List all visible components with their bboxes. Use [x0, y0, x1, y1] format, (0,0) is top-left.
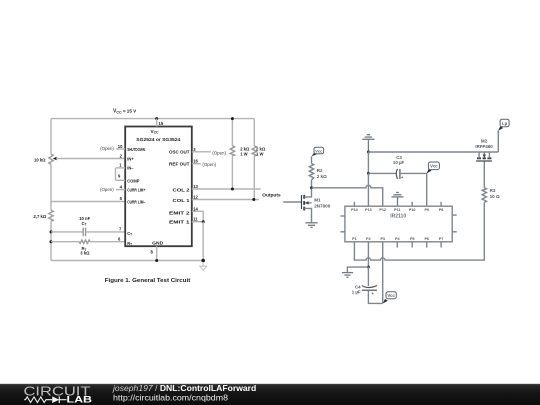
BOTTOM BAR	[0, 383, 540, 405]
wire pin6 right	[90, 241, 125, 243]
svg-text:Lp: Lp	[502, 121, 508, 126]
svg-text:10 kΩ: 10 kΩ	[34, 158, 46, 163]
svg-text:joseph197 / DNL:ControlLAForwa: joseph197 / DNL:ControlLAForward	[112, 383, 256, 393]
svg-text:P7: P7	[439, 237, 444, 241]
wire pin11	[192, 221, 203, 223]
wire pin5	[51, 201, 125, 203]
svg-text:R2: R2	[317, 168, 323, 173]
svg-text:(Open): (Open)	[202, 162, 216, 167]
op-amp U2 IR2110 box	[345, 206, 452, 242]
ground lower left	[342, 273, 353, 278]
junction 2k first top	[231, 117, 234, 120]
ground M1 source	[305, 223, 317, 228]
pin P5 stub	[411, 242, 413, 248]
potentiometer wiper arrow	[53, 157, 57, 161]
wire gnd node to M2 drain	[368, 151, 498, 153]
resistor R3 lead up	[483, 161, 485, 188]
pin P7 stub	[440, 242, 442, 248]
junction P2 gnd node	[367, 266, 370, 269]
pin 4 stub	[116, 189, 125, 191]
resistor R3 body	[482, 188, 486, 203]
wire left rail lower	[50, 221, 52, 260]
svg-text:10 µF: 10 µF	[393, 160, 405, 165]
wire to lower ground	[347, 267, 368, 273]
resistor 2k second body	[252, 146, 256, 156]
capacitor C3	[396, 169, 404, 180]
svg-text:(Open): (Open)	[100, 146, 114, 151]
wire P3 down	[382, 242, 384, 304]
svg-text:REF OUT: REF OUT	[169, 162, 190, 167]
svg-text:P13: P13	[365, 208, 372, 212]
svg-text:GND: GND	[152, 241, 163, 246]
pin side stub right1	[452, 214, 457, 216]
pin 10 stub	[116, 148, 125, 150]
wire pin14	[192, 211, 203, 221]
wire 2k second drop	[253, 119, 255, 146]
pin 16 stub	[192, 163, 201, 165]
svg-text:P1: P1	[352, 237, 357, 241]
svg-text:SHUTDOWN: SHUTDOWN	[127, 147, 145, 152]
junction pin15 on top rail	[155, 117, 158, 120]
pin side stub left2	[340, 231, 345, 233]
svg-text:P11: P11	[394, 208, 400, 212]
wire pin8	[156, 246, 158, 260]
wire pin15	[156, 119, 158, 127]
wire bottom rail	[51, 260, 203, 262]
pin P10 stub	[411, 202, 413, 206]
power flag Vcc at R2	[312, 147, 324, 156]
bar background	[0, 384, 540, 405]
resistor R2 body	[309, 164, 313, 181]
ground P11 inverted	[392, 193, 404, 207]
wire M1 gate lead	[283, 201, 301, 203]
svg-text:1 µF: 1 µF	[352, 290, 361, 295]
wire M2 source to Lp	[497, 131, 499, 152]
svg-text:(Open): (Open)	[100, 187, 114, 192]
junction pin8 bottom	[155, 259, 158, 262]
svg-text:R3: R3	[490, 188, 496, 193]
wire P2 down	[367, 242, 369, 267]
wire drain node to P12 with hop	[312, 185, 383, 206]
wire left rail upper	[50, 119, 52, 154]
capacitor CT plates	[83, 228, 85, 237]
pin P14 stub	[353, 202, 355, 206]
wire pin7 left	[51, 231, 83, 233]
svg-text:Figure 1. General Test Circuit: Figure 1. General Test Circuit	[105, 278, 191, 284]
svg-text:P12: P12	[379, 208, 386, 212]
wire pin13	[192, 188, 261, 190]
svg-text:http://circuitlab.com/cnqbdm8: http://circuitlab.com/cnqbdm8	[113, 393, 228, 403]
power flag Vcc at P3	[383, 292, 396, 304]
pin P4 stub	[396, 242, 398, 248]
svg-text:Vcc: Vcc	[315, 148, 323, 153]
wire Vcc to R2	[311, 156, 313, 163]
svg-text:2N7000: 2N7000	[314, 203, 331, 208]
wire pin7 right	[86, 231, 126, 233]
svg-text:1 W: 1 W	[240, 151, 247, 156]
resistor R2 lead	[311, 180, 313, 188]
svg-text:Vcc: Vcc	[387, 293, 395, 298]
svg-text:CT: CT	[127, 231, 132, 237]
FIGURE1	[34, 109, 282, 284]
pin 3 stub	[192, 151, 211, 153]
resistor 2k second lead2	[253, 156, 255, 200]
svg-text:10: 10	[118, 144, 123, 149]
junction pin11	[202, 220, 205, 223]
capacitor C4	[362, 286, 377, 296]
wire C3 left	[368, 172, 395, 174]
logo resistor zigzag	[24, 397, 52, 403]
wire left rail mid	[50, 164, 52, 210]
svg-text:P9: P9	[424, 208, 429, 212]
svg-text:2 kΩ: 2 kΩ	[317, 174, 327, 179]
resistor 2k first lead2	[231, 156, 233, 189]
svg-text:IN+: IN+	[127, 156, 134, 161]
svg-text:P14: P14	[351, 208, 359, 212]
junction ground top node	[367, 151, 370, 154]
junction 2k first bottom	[231, 188, 234, 191]
junction on left rail pin7	[50, 230, 53, 233]
wire IN+ to pot	[56, 158, 125, 160]
transistor M1 2N7000	[302, 188, 312, 223]
junction 2k second bottom	[252, 198, 255, 201]
wire C3 right to P9 corner	[400, 173, 427, 206]
svg-text:SG2524 or SG3524: SG2524 or SG3524	[136, 137, 181, 142]
svg-text:OSC OUT: OSC OUT	[169, 150, 190, 155]
svg-text:COMP: COMP	[127, 178, 140, 183]
svg-text:CT: CT	[82, 221, 87, 227]
resistor RT body	[79, 240, 90, 243]
pin 9 stub	[116, 179, 126, 181]
potentiometer 10k body	[49, 154, 53, 164]
ground top inverted	[362, 135, 374, 152]
svg-text:EMIT 2: EMIT 2	[169, 210, 191, 215]
svg-text:12: 12	[193, 195, 198, 200]
junction emit bottom	[201, 259, 205, 263]
ground fig1	[200, 262, 207, 270]
svg-text:2,7 kΩ: 2,7 kΩ	[34, 214, 47, 219]
transistor M2 IRFP460	[476, 152, 492, 161]
svg-text:P3: P3	[380, 237, 385, 241]
svg-text:(Open): (Open)	[212, 150, 226, 155]
wire C4 bottom	[368, 290, 382, 303]
svg-text:EMIT 1: EMIT 1	[169, 220, 191, 225]
resistor 2.7k body	[49, 210, 53, 221]
power flag Vcc at P9	[427, 162, 440, 173]
svg-text:3 kΩ: 3 kΩ	[80, 251, 90, 256]
svg-text:P8: P8	[439, 208, 444, 212]
svg-text:CURR LIM+: CURR LIM+	[127, 187, 146, 192]
pin side stub right2	[452, 231, 457, 233]
junction C3 left node	[367, 172, 370, 175]
svg-text:13: 13	[193, 184, 198, 189]
node flag Lp	[498, 119, 509, 130]
wire P1 to R3 bottom with hops	[354, 202, 484, 260]
svg-text:IRFP460: IRFP460	[475, 144, 493, 149]
CIRCUITLAB CIRCUIT	[283, 119, 509, 303]
wire pin6 left	[51, 241, 79, 243]
svg-text:P2: P2	[366, 237, 371, 241]
svg-text:COL 1: COL 1	[173, 198, 191, 203]
svg-text:P10: P10	[409, 208, 416, 212]
wire top rail	[51, 118, 254, 120]
svg-text:11: 11	[193, 217, 198, 222]
resistor 2k first lead	[231, 119, 233, 146]
svg-text:M2: M2	[481, 139, 488, 144]
svg-text:IN–: IN–	[127, 165, 134, 170]
wire gnd node down	[367, 152, 369, 173]
wire P2 to C4	[367, 267, 369, 286]
svg-text:LAB: LAB	[67, 395, 93, 405]
wire pin12	[192, 199, 259, 201]
resistor 2k first body	[230, 146, 234, 156]
op-amp U1 IC box SG2524	[125, 127, 192, 247]
junction M1 drain node	[310, 186, 313, 189]
svg-text:16: 16	[193, 159, 198, 164]
svg-text:CURR LIM–: CURR LIM–	[127, 199, 146, 204]
svg-text:10 Ω: 10 Ω	[490, 194, 500, 199]
pin side stub left1	[340, 215, 345, 217]
wire P13 riser	[367, 173, 369, 206]
junction on left rail pin6	[50, 240, 53, 243]
svg-text:M1: M1	[314, 198, 321, 203]
svg-text:Vcc: Vcc	[430, 164, 438, 169]
wire pin1 to pin9	[115, 168, 117, 180]
pin P8 stub	[440, 202, 442, 206]
svg-text:RT: RT	[127, 241, 132, 247]
pin 1 stub	[116, 167, 126, 169]
svg-text:Outputs: Outputs	[262, 193, 281, 198]
svg-text:IR2110: IR2110	[390, 214, 406, 220]
svg-text:14: 14	[193, 206, 198, 211]
logo diode	[52, 396, 66, 403]
svg-text:1 W: 1 W	[256, 151, 263, 156]
svg-text:P5: P5	[410, 237, 415, 241]
wire emitters down	[202, 222, 204, 261]
pin P6 stub	[426, 242, 428, 248]
svg-text:15: 15	[159, 121, 164, 126]
svg-text:P6: P6	[424, 237, 429, 241]
svg-text:COL 2: COL 2	[173, 188, 191, 193]
